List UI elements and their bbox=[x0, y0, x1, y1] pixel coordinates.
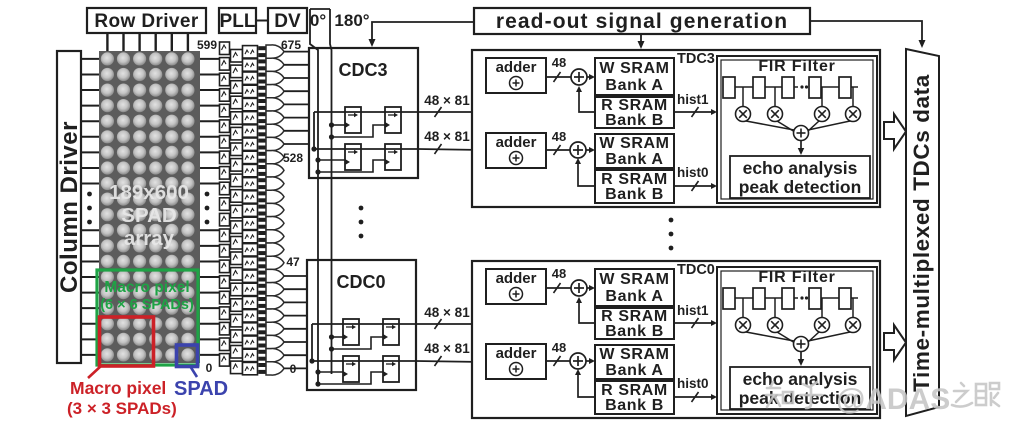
svg-text:48 × 81: 48 × 81 bbox=[424, 305, 470, 320]
wire FIR tap 2 TDC0 bbox=[821, 298, 823, 317]
wire row driver column 4 bbox=[171, 33, 173, 51]
svg-text:Column Driver: Column Driver bbox=[56, 121, 83, 293]
OR gate 1 bbox=[266, 58, 284, 71]
FIR register 1 TDC0 bbox=[753, 288, 765, 309]
junction CDC3 clk2b bbox=[315, 169, 320, 174]
wire column driver row 19 bbox=[81, 354, 99, 356]
junction stubs gate 12 bbox=[258, 205, 266, 216]
svg-text:CDC0: CDC0 bbox=[336, 272, 385, 292]
svg-text:599: 599 bbox=[197, 38, 217, 52]
ellipsis FIR chain TDC3 bbox=[800, 85, 808, 88]
svg-text:DV: DV bbox=[274, 11, 301, 32]
bus width slash CDC3 hist0 48x81 bbox=[435, 144, 442, 154]
bus width slash CDC0 hist0 48x81 bbox=[435, 356, 442, 366]
wire feedback upper TDC0 bbox=[579, 299, 595, 323]
buffer cell A6 bbox=[220, 136, 230, 149]
buffer cell B12 bbox=[231, 237, 243, 250]
svg-text:SPAD: SPAD bbox=[174, 378, 228, 400]
wire adder A out TDC3 bbox=[546, 76, 571, 78]
bus CDC3 hist0 48x81 bbox=[418, 149, 484, 150]
svg-text:Bank A: Bank A bbox=[605, 77, 663, 94]
OR gate 12 bbox=[266, 203, 284, 216]
wire FIR tap 0 TDC0 bbox=[742, 298, 744, 317]
svg-text:@ADAS: @ADAS bbox=[836, 383, 950, 416]
buffer cell B5 bbox=[231, 127, 243, 139]
buffer cell B7 bbox=[231, 159, 243, 172]
wire FIR sum diagonals TDC0 bbox=[746, 332, 850, 343]
callout line macro pixel 3x3 bbox=[88, 366, 101, 378]
junction stubs gate 15 bbox=[258, 244, 266, 255]
wire array row 8 to buffer bbox=[200, 183, 220, 185]
FIR register 0 TDC0 bbox=[723, 288, 735, 309]
OR gate 13 bbox=[266, 217, 284, 230]
wire adder B out TDC3 bbox=[546, 149, 570, 151]
block Column Driver bbox=[56, 51, 83, 363]
svg-text:TDC0: TDC0 bbox=[677, 262, 715, 278]
wire array row 14 to buffer bbox=[200, 276, 220, 278]
buffer cell A20 bbox=[220, 354, 230, 367]
wire array row 18 to buffer bbox=[200, 338, 220, 340]
wire array row 13 to buffer bbox=[200, 260, 220, 262]
junction stubs gate 11 bbox=[258, 191, 266, 202]
wire column driver row 18 bbox=[81, 338, 99, 340]
OR gate 15 bbox=[266, 243, 284, 256]
wire hist1 TDC3 bbox=[674, 111, 714, 113]
junction stubs gate 18 bbox=[258, 284, 266, 295]
svg-text:PLL: PLL bbox=[220, 11, 256, 32]
buffer cell C3 bbox=[243, 85, 258, 97]
buffer cell C18 bbox=[243, 283, 258, 295]
wire CDC3 row branch bbox=[313, 112, 315, 149]
junction stubs gate 9 bbox=[258, 165, 266, 176]
callout line SPAD bbox=[190, 366, 197, 377]
buffer cell C0 bbox=[243, 46, 258, 58]
wire row driver column 2 bbox=[138, 33, 140, 51]
buffer cell B6 bbox=[231, 143, 243, 156]
wire CDC0 clk to FF2b bbox=[318, 372, 383, 384]
wire column driver row 3 bbox=[81, 105, 99, 107]
buffer cell C8 bbox=[243, 151, 258, 163]
annotation macro pixel 6x6 box bbox=[97, 270, 198, 365]
buffer cell B13 bbox=[231, 252, 243, 265]
OR gate 19 bbox=[266, 296, 284, 309]
OR gate 17 bbox=[266, 269, 284, 282]
svg-text:0: 0 bbox=[290, 362, 297, 376]
buffer cell A13 bbox=[220, 245, 230, 258]
wire accumulator B to WSRAM TDC0 bbox=[586, 360, 592, 362]
bus slash hist0 TDC0 bbox=[692, 392, 699, 402]
block echo analysis peak detection TDC3 bbox=[730, 156, 870, 198]
wire clock 0° distribution bbox=[310, 9, 318, 386]
FIR register 3 TDC3 bbox=[809, 77, 821, 98]
wire array row 2 to buffer bbox=[200, 89, 220, 91]
svg-text:FIR Filter: FIR Filter bbox=[758, 269, 835, 286]
buffer cell A4 bbox=[220, 104, 230, 117]
wire column driver row 2 bbox=[81, 89, 99, 91]
wire CDC3 clk to FF1a bbox=[332, 124, 346, 126]
wire array row 0 to buffer bbox=[200, 58, 220, 60]
FIR multiplier 2 TDC0 bbox=[815, 318, 830, 333]
accumulator B TDC3 bbox=[570, 142, 586, 158]
flip-flop CDC0 FF2b bbox=[383, 356, 399, 382]
wire CDC3 row1 data bbox=[314, 111, 418, 113]
wire OR gate 3 to CDC3 bbox=[284, 90, 309, 92]
wire CDC0 row branch bbox=[311, 324, 313, 361]
svg-text:adder: adder bbox=[496, 270, 537, 287]
buffer cell B14 bbox=[231, 268, 243, 281]
svg-text:48 × 81: 48 × 81 bbox=[424, 341, 470, 356]
SRAM R bank B lower TDC3 bbox=[595, 170, 674, 203]
buffer cell C2 bbox=[243, 72, 258, 84]
svg-text:48: 48 bbox=[552, 55, 566, 70]
block echo analysis peak detection TDC0 bbox=[730, 367, 870, 409]
buffer cell B3 bbox=[231, 96, 243, 109]
buffer cell B16 bbox=[231, 299, 243, 312]
wire OR gate 0 to CDC3 bbox=[284, 51, 309, 53]
buffer cell B1 bbox=[231, 65, 243, 78]
label 189x600 SPAD array bbox=[109, 181, 189, 250]
FIR multiplier 0 TDC0 bbox=[736, 318, 751, 333]
buffer cell A12 bbox=[220, 229, 230, 242]
svg-text:0: 0 bbox=[206, 361, 213, 375]
wire adder A out TDC0 bbox=[546, 287, 571, 289]
bus CDC0 hist0 48x81 bbox=[416, 361, 484, 362]
wire row driver column 3 bbox=[154, 33, 156, 51]
svg-text:hist0: hist0 bbox=[677, 376, 709, 391]
wire hist1 TDC0 bbox=[674, 322, 714, 324]
FIR register 1 TDC3 bbox=[753, 77, 765, 98]
wire column driver row 1 bbox=[81, 73, 99, 75]
buffer cell C20 bbox=[243, 310, 258, 322]
buffer cell B17 bbox=[231, 314, 243, 327]
SRAM W bank A lower TDC0 bbox=[595, 345, 674, 379]
svg-text:Bank B: Bank B bbox=[605, 323, 664, 340]
buffer cell C11 bbox=[243, 191, 258, 203]
flip-flop CDC0 FF2a bbox=[343, 356, 359, 382]
wire column driver row 12 bbox=[81, 245, 99, 247]
buffer cell A19 bbox=[220, 338, 230, 351]
OR gate 11 bbox=[266, 190, 284, 203]
bus CDC3 hist1 48x81 bbox=[418, 77, 484, 112]
block DV bbox=[268, 8, 307, 33]
OR gate 6 bbox=[266, 124, 284, 137]
wire OR gate 5 to CDC3 bbox=[284, 117, 309, 119]
buffer cell C4 bbox=[243, 98, 258, 110]
block Row Driver bbox=[87, 8, 206, 33]
wire OR gate 19 to CDC0 bbox=[284, 301, 307, 303]
buffer cell C22 bbox=[243, 336, 258, 348]
wire column driver row 7 bbox=[81, 167, 99, 169]
buffer cell C14 bbox=[243, 230, 258, 242]
wire array row 6 to buffer bbox=[200, 151, 220, 153]
junction stubs gate 4 bbox=[258, 99, 266, 110]
FIR filter box TDC0 bbox=[717, 267, 877, 414]
junction stubs gate 17 bbox=[258, 271, 266, 282]
wire array row 3 to buffer bbox=[200, 105, 220, 107]
wire FIR adder to echo TDC0 bbox=[800, 352, 802, 364]
wire array row 15 to buffer bbox=[200, 292, 220, 294]
flip-flop CDC0 FF1b bbox=[383, 319, 399, 345]
label Macro pixel 3x3 bbox=[67, 378, 177, 418]
wire OR gate 20 to CDC0 bbox=[284, 315, 307, 317]
wire column driver row 6 bbox=[81, 151, 99, 153]
buffer cell C13 bbox=[243, 217, 258, 229]
OR gate 10 bbox=[266, 177, 284, 190]
buffer cell B8 bbox=[231, 174, 243, 187]
OR gate 24 bbox=[266, 362, 284, 375]
svg-text:peak detection: peak detection bbox=[739, 177, 862, 197]
wire column driver row 13 bbox=[81, 260, 99, 262]
buffer cell A10 bbox=[220, 198, 230, 211]
svg-text:FIR Filter: FIR Filter bbox=[758, 58, 835, 75]
block PLL bbox=[219, 8, 256, 33]
OR gate 2 bbox=[266, 71, 284, 84]
OR gate 22 bbox=[266, 335, 284, 348]
junction stubs gate 10 bbox=[258, 178, 266, 189]
buffer cell C10 bbox=[243, 178, 258, 190]
wire column driver row 8 bbox=[81, 183, 99, 185]
flip-flop CDC0 FF1a bbox=[343, 319, 359, 345]
svg-text:CDC3: CDC3 bbox=[338, 60, 387, 80]
buffer cell C6 bbox=[243, 125, 258, 137]
wire array row 17 to buffer bbox=[200, 323, 220, 325]
FIR multiplier 1 TDC3 bbox=[768, 107, 783, 122]
wire array row 5 to buffer bbox=[200, 136, 220, 138]
SRAM R bank B lower TDC0 bbox=[595, 381, 674, 414]
buffer cell B2 bbox=[231, 81, 243, 94]
svg-text:TDC3: TDC3 bbox=[677, 51, 715, 67]
buffer cell B19 bbox=[231, 346, 243, 359]
adder A TDC3 bbox=[486, 58, 546, 93]
OR gate 21 bbox=[266, 322, 284, 335]
wire column driver row 11 bbox=[81, 229, 99, 231]
bus Time-multiplexed TDCs data bbox=[906, 49, 939, 416]
svg-text:48 × 81: 48 × 81 bbox=[424, 93, 470, 108]
junction stubs gate 23 bbox=[258, 350, 266, 361]
svg-text:hist0: hist0 bbox=[677, 165, 709, 180]
ellipsis right of array bbox=[205, 192, 210, 225]
buffer cell C12 bbox=[243, 204, 258, 216]
OR gate 18 bbox=[266, 283, 284, 296]
svg-text:W SRAM: W SRAM bbox=[599, 346, 669, 363]
OR gate 16 bbox=[266, 256, 284, 269]
wire CDC3 row2 data bbox=[314, 148, 418, 150]
wire CDC0 row2 data bbox=[312, 360, 416, 362]
buffer cell C21 bbox=[243, 323, 258, 335]
wire accumulator A to WSRAM TDC0 bbox=[587, 287, 592, 289]
svg-text:48: 48 bbox=[552, 340, 566, 355]
FIR multiplier 0 TDC3 bbox=[736, 107, 751, 122]
FIR multiplier 1 TDC0 bbox=[768, 318, 783, 333]
wire array row 7 to buffer bbox=[200, 167, 220, 169]
FIR register 4 TDC0 bbox=[839, 288, 851, 309]
svg-text:(3 × 3 SPADs): (3 × 3 SPADs) bbox=[67, 399, 177, 418]
junction stubs gate 1 bbox=[258, 59, 266, 70]
wire array row 11 to buffer bbox=[200, 229, 220, 231]
OR gate 4 bbox=[266, 98, 284, 111]
flip-flop CDC3 FF2b bbox=[385, 144, 401, 170]
accumulator A TDC3 bbox=[571, 69, 587, 85]
buffer cell A2 bbox=[220, 73, 230, 86]
junction CDC0 branch bbox=[309, 358, 314, 363]
wire array row 4 to buffer bbox=[200, 120, 220, 122]
SPAD array 189x600 bbox=[99, 51, 200, 363]
SRAM W bank A lower TDC3 bbox=[595, 134, 674, 168]
wire feedback upper TDC3 bbox=[579, 88, 595, 112]
buffer cell A3 bbox=[220, 89, 230, 102]
wire feedback lower TDC0 bbox=[578, 371, 595, 397]
svg-text:48: 48 bbox=[552, 129, 566, 144]
bus width slash CDC0 hist1 48x81 bbox=[435, 319, 442, 329]
OR gate 23 bbox=[266, 349, 284, 362]
accumulator A TDC0 bbox=[571, 280, 587, 296]
buffer cell C19 bbox=[243, 296, 258, 308]
buffer cell B9 bbox=[231, 190, 243, 203]
junction CDC3 clk1a bbox=[329, 122, 334, 127]
wire read-out to TDC3 bbox=[640, 34, 642, 46]
wire array row 19 to buffer bbox=[200, 354, 220, 356]
junction stubs gate 20 bbox=[258, 310, 266, 321]
bus slash hist0 TDC3 bbox=[692, 181, 699, 191]
svg-text:Macro pixel: Macro pixel bbox=[104, 279, 189, 296]
svg-text:hist1: hist1 bbox=[677, 92, 709, 107]
bus slash hist1 TDC3 bbox=[692, 107, 699, 117]
OR gate 9 bbox=[266, 164, 284, 177]
junction CDC3 clk2a bbox=[315, 157, 320, 162]
junction CDC0 clk2a bbox=[315, 369, 320, 374]
buffer cell C24 bbox=[243, 362, 258, 374]
OR gate 5 bbox=[266, 111, 284, 124]
bus slash hist1 TDC0 bbox=[692, 318, 699, 328]
OR gate 3 bbox=[266, 85, 284, 98]
FIR filter box TDC3 bbox=[717, 56, 877, 203]
wire adder B out TDC0 bbox=[546, 360, 570, 362]
OR gate 14 bbox=[266, 230, 284, 243]
buffer cell C16 bbox=[243, 257, 258, 269]
bus slash adder B TDC0 bbox=[554, 356, 561, 366]
svg-text:Row Driver: Row Driver bbox=[94, 11, 199, 32]
block arrow TDC3 output bbox=[884, 114, 906, 149]
junction stubs gate 13 bbox=[258, 218, 266, 229]
wire CDC3 clk to FF1b bbox=[332, 125, 386, 137]
buffer cell A11 bbox=[220, 213, 230, 226]
wire CDC3 clk to FF2a bbox=[318, 159, 345, 161]
wire OR gate 21 to CDC0 bbox=[284, 328, 307, 330]
OR gate 7 bbox=[266, 137, 284, 150]
ellipsis between CDC blocks bbox=[359, 206, 364, 239]
wire PLL to DV bbox=[256, 20, 268, 22]
ellipsis FIR chain TDC0 bbox=[800, 296, 808, 299]
junction stubs gate 3 bbox=[258, 86, 266, 97]
flip-flop CDC3 FF1b bbox=[385, 107, 401, 133]
svg-text:SPAD: SPAD bbox=[121, 204, 176, 227]
flip-flop CDC3 FF1a bbox=[345, 107, 361, 133]
junction stubs gate 21 bbox=[258, 323, 266, 334]
svg-text:Bank B: Bank B bbox=[605, 397, 664, 414]
junction CDC0 clk1a bbox=[329, 334, 334, 339]
buffer cell C7 bbox=[243, 138, 258, 150]
junction CDC3 branch bbox=[311, 146, 316, 151]
label macro pixel 6x6 bbox=[100, 279, 194, 313]
buffer cell B10 bbox=[231, 205, 243, 218]
SRAM R bank B upper TDC0 bbox=[595, 308, 674, 340]
svg-text:Bank A: Bank A bbox=[605, 151, 663, 168]
wire OR gate 7 to CDC3 bbox=[284, 143, 309, 145]
wire column driver row 14 bbox=[81, 276, 99, 278]
wire 180° feed to CDC3 bbox=[372, 22, 474, 43]
buffer cell B0 bbox=[231, 50, 243, 63]
wire OR gate 2 to CDC3 bbox=[284, 77, 309, 79]
buffer cell A0 bbox=[220, 42, 230, 55]
wire hist0 TDC3 bbox=[674, 185, 714, 187]
svg-text:array: array bbox=[124, 227, 175, 250]
wire row driver column 0 bbox=[106, 33, 108, 51]
FIR adder TDC0 bbox=[794, 337, 809, 352]
block TDC3 bbox=[472, 50, 880, 207]
annotation macro pixel 3x3 box bbox=[100, 317, 154, 366]
wire column driver row 5 bbox=[81, 136, 99, 138]
bus slash adder A TDC3 bbox=[554, 72, 561, 82]
buffer cell B15 bbox=[231, 283, 243, 296]
svg-text:adder: adder bbox=[496, 59, 537, 76]
junction stubs gate 24 bbox=[258, 363, 266, 374]
junction stubs gate 5 bbox=[258, 112, 266, 123]
FIR multiplier 3 TDC0 bbox=[846, 318, 861, 333]
wire CDC0 clk to FF1b bbox=[332, 337, 384, 349]
wire FIR tap 0 TDC3 bbox=[742, 87, 744, 106]
svg-text:W SRAM: W SRAM bbox=[599, 60, 669, 77]
SRAM W bank A upper TDC0 bbox=[595, 269, 674, 306]
svg-text:Bank B: Bank B bbox=[605, 112, 664, 129]
svg-text:(6 × 6 SPADs): (6 × 6 SPADs) bbox=[100, 297, 194, 313]
svg-text:Bank A: Bank A bbox=[605, 288, 663, 305]
buffer cell C9 bbox=[243, 164, 258, 176]
buffer cell A8 bbox=[220, 167, 230, 180]
wire hist0 TDC0 bbox=[674, 396, 714, 398]
svg-text:0°: 0° bbox=[310, 11, 326, 30]
wire CDC0 clk to FF1a bbox=[332, 336, 344, 338]
svg-text:W SRAM: W SRAM bbox=[599, 271, 669, 288]
svg-text:Time-multiplexed TDCs data: Time-multiplexed TDCs data bbox=[909, 74, 934, 392]
svg-text:read-out signal generation: read-out signal generation bbox=[496, 10, 788, 33]
junction stubs gate 8 bbox=[258, 152, 266, 163]
watermark zhihu ADAS bbox=[766, 382, 822, 408]
block TDC0 bbox=[472, 261, 880, 418]
wire column driver row 0 bbox=[81, 58, 99, 60]
junction CDC0 clk2b bbox=[315, 381, 320, 386]
junction CDC0 clk1b bbox=[329, 346, 334, 351]
accumulator B TDC0 bbox=[570, 353, 586, 369]
wire array row 12 to buffer bbox=[200, 245, 220, 247]
wire FIR tap 1 TDC0 bbox=[774, 298, 776, 317]
junction stubs gate 16 bbox=[258, 257, 266, 268]
buffer cell A17 bbox=[220, 307, 230, 320]
wire CDC0 row1 data bbox=[312, 323, 416, 325]
buffer cell C15 bbox=[243, 244, 258, 256]
wire FIR chain links TDC3 bbox=[735, 86, 858, 88]
block CDC3 bbox=[309, 48, 418, 178]
wire array row 1 to buffer bbox=[200, 73, 220, 75]
wire FIR tap 2 TDC3 bbox=[821, 87, 823, 106]
wire OR gate 22 to CDC0 bbox=[284, 341, 307, 343]
buffer cell A5 bbox=[220, 120, 230, 132]
buffer cell A9 bbox=[220, 182, 230, 195]
buffer cell C23 bbox=[243, 349, 258, 361]
FIR adder TDC3 bbox=[794, 126, 809, 141]
wire column driver row 16 bbox=[81, 307, 99, 309]
svg-text:189x600: 189x600 bbox=[109, 181, 189, 204]
wire CDC3 clk to FF2b bbox=[318, 160, 385, 172]
